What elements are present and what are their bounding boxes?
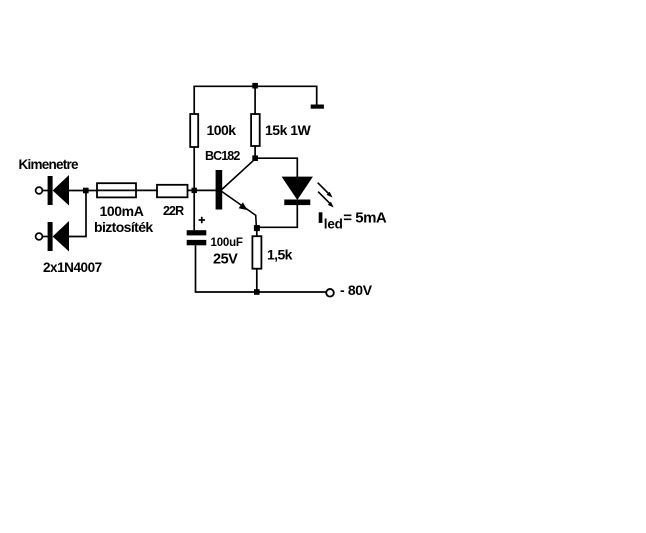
fuse F1 [97, 183, 136, 197]
svg-text:100uF: 100uF [211, 237, 243, 249]
wire base node to capacitor [193, 190, 195, 230]
svg-text:led: led [324, 216, 343, 231]
wire 100k top to rail [193, 86, 195, 115]
svg-text:biztosíték: biztosíték [94, 219, 153, 235]
diode D2 [48, 221, 69, 252]
terminal circle bottom [36, 233, 43, 240]
resistor 15k 1W [251, 114, 260, 146]
capacitor C1 [187, 230, 207, 245]
junction top rail [252, 83, 258, 89]
top rail wire [193, 85, 317, 87]
svg-text:- 80V: - 80V [340, 282, 373, 298]
svg-text:Kimenetre: Kimenetre [19, 157, 80, 172]
junction bottom rail [254, 289, 260, 295]
wire terminal to D1 [42, 190, 48, 192]
resistor 1,5k [252, 236, 261, 269]
LED light arrow 2 [318, 192, 334, 208]
wire fuse to 22R [136, 189, 157, 191]
wire D1 to node A [69, 190, 86, 192]
terminal circle top [36, 187, 43, 194]
resistor 22R [157, 185, 188, 198]
capacitor C1 plus sign [199, 217, 205, 223]
junction emitter node [254, 225, 260, 231]
ground [311, 105, 324, 109]
wire LED bottom to emitter node [256, 205, 297, 227]
transistor Q1 emitter lead [222, 192, 257, 228]
wire node A to fuse [88, 190, 98, 192]
wire terminal to D2 [42, 236, 48, 238]
label I led = 5mA [319, 210, 387, 232]
svg-text:2x1N4007: 2x1N4007 [43, 260, 102, 275]
svg-text:25V: 25V [213, 251, 238, 267]
transistor Q1 base bar [216, 170, 223, 210]
wire collector node to LED top [255, 158, 297, 177]
wire emitter node to 1,5k [256, 230, 258, 237]
svg-text:= 5mA: = 5mA [343, 210, 387, 227]
wire base node up to 100k [193, 147, 195, 190]
junction collector node [252, 155, 258, 161]
svg-text:1,5k: 1,5k [267, 247, 293, 263]
wire rail to 15k [254, 86, 256, 114]
LED D3 [282, 177, 313, 206]
junction base node [192, 188, 197, 193]
svg-text:100k: 100k [207, 122, 237, 138]
LED light arrow 1 [318, 183, 333, 198]
wire 22R to base node [188, 189, 216, 191]
wire 15k to collector node [254, 146, 256, 158]
terminal circle -80V [326, 289, 334, 297]
svg-text:100mA: 100mA [100, 203, 144, 219]
svg-text:BC182: BC182 [205, 149, 240, 163]
wire capacitor to bottom rail [195, 245, 197, 292]
transistor Q1 collector lead [222, 159, 255, 190]
bottom rail wire [195, 291, 327, 293]
transistor Q1 emitter arrow [239, 202, 248, 210]
wire 1,5k to bottom rail [256, 269, 258, 292]
diode D1 [48, 175, 69, 206]
resistor 100k [190, 114, 198, 147]
svg-text:15k 1W: 15k 1W [265, 122, 312, 138]
wire rail down to ground [316, 86, 318, 105]
svg-text:22R: 22R [163, 204, 184, 218]
wire D2 to node A [69, 191, 86, 237]
junction node A [83, 188, 89, 194]
